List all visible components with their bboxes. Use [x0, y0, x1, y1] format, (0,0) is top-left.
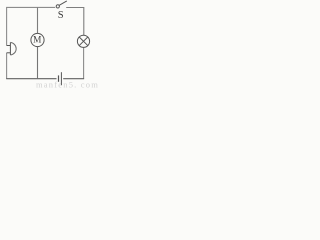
svg-text:S: S	[58, 10, 64, 21]
lamp cross diagonal 2	[79, 37, 88, 46]
wire bottom-left segment	[6, 78, 56, 80]
wire left lower segment	[6, 53, 8, 79]
battery short plate (negative)	[58, 75, 60, 81]
bell top lead	[7, 45, 11, 47]
svg-text:M: M	[33, 36, 41, 46]
lamp circle	[77, 35, 89, 47]
lamp cross diagonal 1	[79, 37, 88, 46]
wire motor branch lower	[37, 47, 39, 79]
svg-text:manfen5. com: manfen5. com	[36, 80, 99, 89]
bell body arc	[10, 42, 16, 55]
motor M circle	[31, 33, 44, 46]
wire bottom-right segment	[63, 78, 84, 80]
battery long plate (positive)	[60, 72, 62, 85]
wire top-left segment	[7, 7, 56, 45]
wire motor branch upper	[37, 7, 39, 33]
wire right lower segment	[83, 47, 85, 78]
wire top-right segment	[66, 8, 84, 36]
bell body flat bar	[9, 42, 11, 55]
background	[0, 0, 104, 88]
bell bottom lead	[7, 52, 11, 54]
switch S blade	[59, 1, 67, 5]
switch S circle pivot	[56, 5, 59, 8]
